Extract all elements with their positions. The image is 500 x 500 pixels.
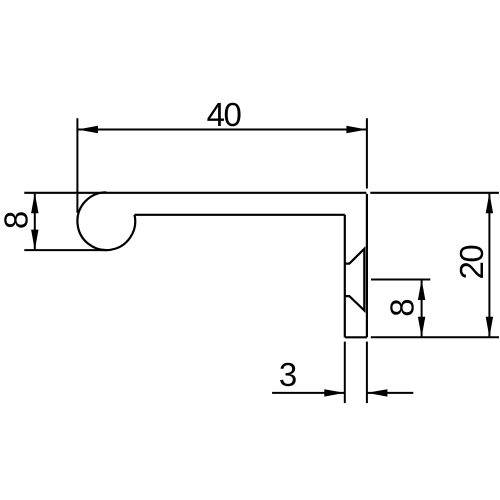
dim3 line right — [367, 392, 413, 394]
arrow dim20 up — [486, 193, 493, 214]
profile underside line — [135, 214, 345, 216]
dim40 extension left — [76, 118, 78, 213]
hook bead arc — [77, 192, 135, 250]
dim40 line — [77, 129, 367, 131]
arrow dim3 pointing left — [367, 389, 388, 396]
arrow dim8R up — [418, 280, 425, 301]
arrow dim40 right — [346, 126, 367, 133]
dim8L extension bottom — [24, 249, 106, 251]
dim20 extension bottom — [371, 336, 499, 338]
svg-text:8: 8 — [0, 211, 34, 229]
dim40 extension right — [366, 118, 368, 188]
arrow dim8L up — [31, 193, 38, 214]
profile leg inner edge — [344, 215, 346, 337]
dim3 extension right — [366, 342, 368, 404]
dim8R line — [421, 280, 423, 338]
dim3 extension left — [344, 342, 346, 404]
arrow dim40 left — [77, 126, 98, 133]
dim20 line — [488, 193, 490, 337]
profile leg outer edge — [366, 194, 368, 337]
dim8L line — [34, 193, 36, 250]
dim8R extension top — [371, 279, 430, 281]
arrow dim3 pointing right — [324, 389, 345, 396]
svg-text:8: 8 — [384, 298, 421, 316]
arrow dim8R down — [418, 317, 425, 338]
svg-text:20: 20 — [453, 245, 490, 280]
svg-text:40: 40 — [207, 96, 242, 133]
arrow dim20 down — [486, 317, 493, 338]
profile leg bottom cap — [345, 336, 367, 338]
svg-text:3: 3 — [279, 356, 297, 393]
dim3 line left — [272, 392, 345, 394]
profile top edge with left extension line — [24, 192, 366, 194]
extension line 20-top — [370, 192, 499, 194]
arrow dim8L down — [31, 230, 38, 251]
screw pocket — [345, 249, 365, 311]
